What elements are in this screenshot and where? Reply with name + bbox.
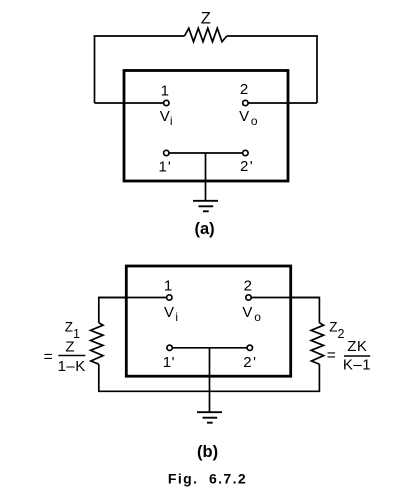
svg-text:1–K: 1–K xyxy=(58,358,86,375)
svg-text:Z: Z xyxy=(201,10,211,28)
svg-text:K–1: K–1 xyxy=(343,357,371,374)
wire: link between 1' and 2' (a) xyxy=(166,152,245,154)
terminal 2' (a) xyxy=(243,150,248,155)
wire: Z1 top lead xyxy=(99,298,127,323)
terminal 2 (b) xyxy=(246,295,251,300)
two-port network box (b) xyxy=(126,266,290,376)
svg-text:1: 1 xyxy=(164,278,172,295)
svg-text:Z: Z xyxy=(65,339,74,356)
wire: bottom rail (b) xyxy=(98,390,320,392)
svg-text:=: = xyxy=(327,347,336,364)
wire: feedback loop top-left segment xyxy=(94,35,185,37)
wire: terminal 2 lead (b) xyxy=(249,297,320,299)
wire: ground stem (b) xyxy=(209,348,211,412)
label Z1 value: = Z/(1-K) xyxy=(44,339,86,375)
svg-text:2: 2 xyxy=(240,81,248,98)
ground symbol (a) xyxy=(193,201,218,212)
terminal 1 (b) xyxy=(167,295,172,300)
wire: terminal 1 lead (b) xyxy=(99,297,170,299)
ground symbol (b) xyxy=(197,412,222,423)
wire: Z1 bottom lead xyxy=(98,364,100,391)
wire: terminal 2 lead (a) xyxy=(245,102,317,104)
terminal 2 (a) xyxy=(243,100,248,105)
terminal 1 (a) xyxy=(164,100,169,105)
wire: feedback loop left vertical xyxy=(94,36,96,103)
terminal 2' (b) xyxy=(247,345,252,350)
wire: feedback loop right vertical xyxy=(316,36,318,103)
wire: terminal 1 lead (a) xyxy=(95,102,167,104)
wire: feedback loop top-right segment xyxy=(227,35,318,37)
resistor Z1 xyxy=(91,323,104,364)
svg-text:1: 1 xyxy=(161,83,169,100)
wire: Z2 top lead xyxy=(291,298,320,323)
resistor Z2 xyxy=(311,323,324,364)
wire: ground stem (a) xyxy=(205,153,207,201)
svg-text:1': 1' xyxy=(159,158,171,175)
svg-text:Fig. 6.7.2: Fig. 6.7.2 xyxy=(168,470,247,486)
wire: link between 1' and 2' (b) xyxy=(170,347,250,349)
svg-text:ZK: ZK xyxy=(347,338,367,355)
svg-text:2': 2' xyxy=(240,158,253,175)
svg-text:(a): (a) xyxy=(195,220,215,238)
svg-text:=: = xyxy=(44,349,53,366)
terminal 1' (a) xyxy=(164,150,169,155)
terminal 1' (b) xyxy=(167,345,172,350)
svg-text:(b): (b) xyxy=(197,443,218,461)
label Z2 value: = ZK/(K-1) xyxy=(327,338,371,374)
svg-text:1': 1' xyxy=(163,354,175,371)
resistor Z xyxy=(185,28,227,42)
svg-text:2': 2' xyxy=(243,354,256,371)
wire: Z2 bottom lead xyxy=(318,364,320,391)
two-port network box (a) xyxy=(124,71,288,182)
svg-text:2: 2 xyxy=(244,278,252,295)
